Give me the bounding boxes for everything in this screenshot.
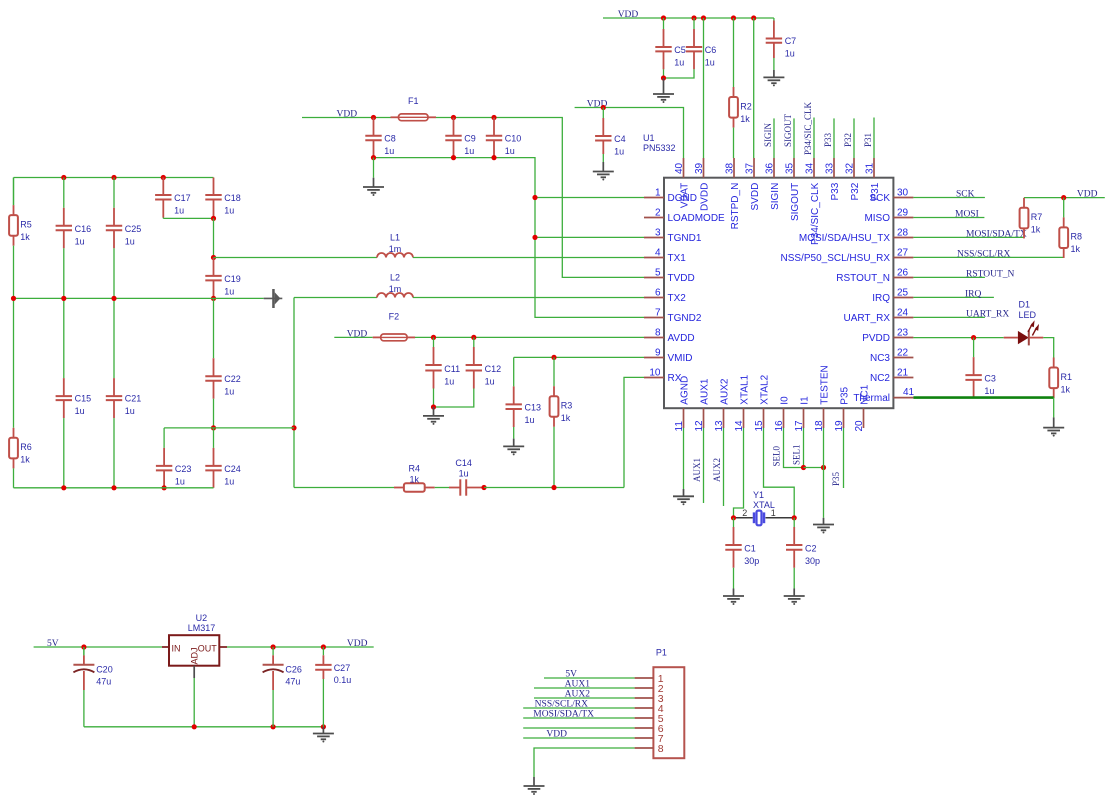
pin 25 IRQ stub — [893, 297, 913, 299]
svg-text:P31: P31 — [870, 182, 881, 200]
pin number 24 — [897, 308, 909, 319]
svg-text:NSS/SCL/RX: NSS/SCL/RX — [957, 249, 1010, 259]
pin name P34/SIC_CLK — [810, 182, 821, 245]
junction R8 top — [1061, 195, 1066, 200]
connector P1 pin 6 stub — [635, 727, 654, 729]
svg-text:30p: 30p — [744, 556, 759, 566]
connector P1 pin number 3 — [658, 693, 664, 705]
wire VDD to F1 — [302, 117, 391, 119]
net label AUX1 (P1) — [565, 680, 591, 690]
pin number 4 — [655, 248, 661, 259]
junction C10 top — [491, 115, 496, 120]
junction C16/C15 node — [61, 296, 66, 301]
capacitor C10 — [486, 118, 522, 158]
capacitor C13 — [506, 357, 542, 438]
pin number 21 — [897, 368, 909, 379]
wire L1 to pin4 TX1 — [413, 257, 644, 259]
svg-text:C19: C19 — [224, 274, 241, 284]
pin 34 P34/SIC_CLK stub — [813, 158, 815, 178]
svg-text:R4: R4 — [409, 464, 421, 474]
regulator U2 LM317 — [162, 635, 227, 678]
wire P1 pin 4 — [523, 707, 634, 709]
svg-text:1u: 1u — [175, 476, 185, 486]
svg-text:C22: C22 — [224, 374, 241, 384]
pin name P32 — [850, 182, 861, 200]
pin 26 RSTOUT_N stub — [893, 277, 913, 279]
svg-text:C18: C18 — [224, 193, 241, 203]
junction C25/C21 node — [111, 296, 116, 301]
junction C9 top — [451, 115, 456, 120]
svg-text:P32: P32 — [850, 182, 861, 200]
junction C15 bottom — [61, 485, 66, 490]
pin name SIGOUT — [790, 183, 801, 221]
svg-text:VBAT: VBAT — [680, 183, 691, 208]
net label SEL1 — [792, 444, 802, 465]
wire TX2 to L2 — [294, 297, 377, 299]
pin number 15 — [754, 420, 765, 432]
wire P1 pin 1 — [544, 677, 635, 679]
svg-text:39: 39 — [694, 162, 705, 174]
pin 39 DVDD stub — [703, 158, 705, 178]
svg-text:AUX1: AUX1 — [700, 378, 711, 405]
svg-text:1u: 1u — [444, 377, 454, 387]
wire NSS/SCL/RX — [913, 256, 1063, 258]
ground below C7 — [763, 58, 784, 86]
pin 14 XTAL1 stub — [743, 408, 745, 428]
svg-text:1k: 1k — [1031, 225, 1041, 235]
svg-text:0.1u: 0.1u — [334, 675, 352, 685]
pin name TGND1 — [668, 233, 702, 244]
pin name MOSI/SDA/HSU_TX — [799, 233, 890, 244]
junction SEL1 node — [801, 465, 806, 470]
svg-text:AUX1: AUX1 — [692, 458, 702, 482]
pin 23 PVDD stub — [893, 337, 913, 339]
pin 35 SIGOUT stub — [793, 158, 795, 178]
svg-text:RSTOUT_N: RSTOUT_N — [966, 269, 1015, 279]
svg-text:PVDD: PVDD — [862, 333, 890, 344]
connector P1 pin number 2 — [658, 683, 664, 695]
svg-text:1k: 1k — [1061, 384, 1071, 394]
wire C6 bottom to C5 bottom — [664, 69, 695, 78]
net label 5V (P1) — [565, 670, 577, 680]
svg-text:20: 20 — [854, 420, 865, 432]
wire to pin3 TGND1 — [535, 236, 644, 238]
junction TX2 branch / C22 row — [291, 425, 296, 430]
pin name UART_RX — [844, 313, 891, 324]
wire net AUX1 — [703, 428, 705, 503]
wire OUT to VDD — [227, 646, 374, 648]
wire VDD top rail — [603, 17, 774, 19]
pin number 16 — [774, 420, 785, 432]
junction TESTEN node — [821, 465, 826, 470]
svg-text:8: 8 — [655, 328, 661, 339]
svg-text:7: 7 — [655, 308, 661, 319]
pin number 14 — [734, 420, 745, 432]
svg-text:C4: C4 — [614, 134, 626, 144]
svg-text:MOSI: MOSI — [955, 210, 979, 220]
junction TGND1 branch — [532, 235, 537, 240]
svg-text:2: 2 — [742, 508, 747, 518]
svg-text:P34/SIC_CLK: P34/SIC_CLK — [810, 182, 821, 245]
svg-text:D1: D1 — [1019, 300, 1031, 310]
junction ADJ bottom — [192, 724, 197, 729]
svg-text:UART_RX: UART_RX — [844, 313, 891, 324]
svg-text:37: 37 — [745, 162, 756, 174]
capacitor C14 — [435, 458, 483, 496]
pin name RSTPD_N — [730, 183, 741, 230]
pin 13 AUX2 stub — [723, 408, 725, 428]
svg-text:21: 21 — [897, 368, 909, 379]
svg-text:34: 34 — [805, 162, 816, 174]
junction C4 top — [601, 105, 606, 110]
capacitor C27 — [315, 647, 351, 727]
net label VDD (rail 2) — [587, 100, 608, 110]
connector P1 body — [653, 667, 684, 758]
svg-text:NC3: NC3 — [870, 353, 890, 364]
svg-text:P1: P1 — [656, 648, 667, 658]
pin number 23 — [897, 328, 909, 339]
junction C22 bottom — [211, 425, 216, 430]
wire P1 pin 2 — [534, 687, 635, 689]
wire pin16 I0 (SEL0) — [784, 428, 804, 468]
pin 38 RSTPD_N stub — [733, 158, 735, 178]
pin name P35 — [840, 386, 851, 404]
pin 8 AVDD stub — [644, 337, 664, 339]
svg-text:1u: 1u — [984, 386, 994, 396]
svg-text:P31: P31 — [863, 133, 873, 147]
resistor R1 — [1049, 358, 1072, 399]
wire pin17 I1 (SEL1) — [803, 428, 805, 468]
svg-text:F1: F1 — [408, 96, 419, 106]
pin name DVDD — [700, 183, 711, 211]
pin 17 I1 stub — [803, 408, 805, 428]
capacitor C8 — [365, 118, 396, 158]
svg-text:C17: C17 — [174, 193, 191, 203]
svg-text:MISO: MISO — [864, 213, 890, 224]
svg-text:3: 3 — [655, 228, 661, 239]
pin number 8 — [655, 328, 661, 339]
svg-text:SIGOUT: SIGOUT — [783, 113, 793, 147]
junction C26 bottom — [271, 724, 276, 729]
svg-text:I1: I1 — [800, 396, 811, 405]
capacitor C16 — [56, 178, 92, 299]
junction C16 top — [61, 175, 66, 180]
junction R3 top — [551, 355, 556, 360]
svg-text:5: 5 — [655, 268, 661, 279]
net label AUX1 — [692, 458, 702, 482]
pin 10 RX stub — [644, 377, 664, 379]
pin 11 AGND stub — [683, 408, 685, 428]
pin number 41 — [903, 387, 915, 398]
svg-text:OUT: OUT — [198, 644, 218, 654]
wire Thermal net (thick) — [913, 396, 1053, 399]
capacitor C24 — [205, 428, 241, 488]
svg-text:1u: 1u — [224, 206, 234, 216]
pin name XTAL1 — [740, 374, 751, 404]
svg-text:XTAL1: XTAL1 — [740, 374, 751, 404]
pin number 13 — [714, 420, 725, 432]
svg-text:SIGOUT: SIGOUT — [790, 183, 801, 221]
pin number 11 — [674, 421, 685, 432]
pin 16 I0 stub — [783, 408, 785, 428]
junction C20 top — [81, 644, 86, 649]
capacitor C9 — [445, 118, 476, 158]
pin name P31 — [870, 182, 881, 200]
svg-text:SCK: SCK — [956, 190, 975, 200]
ground below LM317 rail — [313, 727, 334, 743]
wire C14 to RX corner — [484, 487, 624, 489]
net label P32 — [843, 133, 853, 147]
pin name AUX1 — [700, 378, 711, 405]
ground below C1 — [723, 589, 744, 606]
svg-text:47u: 47u — [285, 677, 300, 687]
svg-text:1u: 1u — [224, 286, 234, 296]
junction XTAL pin2 node — [731, 515, 736, 520]
svg-text:Thermal: Thermal — [853, 393, 890, 404]
ground below C5/C6 — [653, 78, 674, 103]
svg-text:9: 9 — [655, 348, 661, 359]
svg-text:TGND2: TGND2 — [668, 313, 702, 324]
svg-text:P32: P32 — [843, 133, 853, 147]
svg-text:1u: 1u — [125, 236, 135, 246]
pin name VMID — [668, 353, 693, 364]
svg-text:C1: C1 — [744, 543, 756, 553]
fuse F2 — [373, 312, 415, 341]
wire antenna mid rail — [14, 297, 264, 299]
wire antenna top rail — [14, 177, 214, 179]
connector P1 pin 3 stub — [635, 697, 654, 699]
net label VDD (top rail) — [618, 10, 639, 20]
connector P1 pin number 1 — [658, 673, 664, 685]
wire C22 row — [164, 427, 294, 429]
svg-text:P34/SIC_CLK: P34/SIC_CLK — [803, 101, 813, 155]
pin number 18 — [814, 420, 825, 432]
svg-text:31: 31 — [865, 162, 876, 174]
wire C12 bottom to ground node — [434, 398, 474, 407]
pin 4 TX1 stub — [644, 257, 664, 259]
svg-text:TGND1: TGND1 — [668, 233, 702, 244]
inductor L2 — [377, 273, 413, 298]
svg-text:PN5332: PN5332 — [643, 143, 676, 153]
svg-text:25: 25 — [897, 288, 909, 299]
pin 40 VBAT stub — [683, 158, 685, 178]
pin number 33 — [825, 162, 836, 174]
wire ADJ down — [193, 678, 195, 727]
net label SIGOUT — [783, 113, 793, 147]
capacitor C6 — [686, 18, 717, 69]
wire C20 top segment — [83, 647, 85, 655]
net label VDD (F1 rail) — [337, 110, 358, 120]
pin number 38 — [725, 162, 736, 174]
wire pin9 VMID — [514, 356, 644, 358]
wire LED to R1 — [1043, 338, 1053, 358]
svg-text:C7: C7 — [785, 36, 797, 46]
capacitor C3 — [965, 338, 996, 398]
wire PVDD to LED — [913, 337, 1003, 339]
wire VDD to F2 — [334, 336, 372, 338]
pin number 22 — [897, 348, 909, 359]
svg-text:10: 10 — [649, 368, 661, 379]
pin number 3 — [655, 228, 661, 239]
svg-text:C8: C8 — [384, 134, 396, 144]
net label VDD (P1) — [546, 730, 567, 740]
net label VDD (F2 rail) — [347, 329, 368, 339]
ground below C13 — [503, 439, 524, 456]
wire F1 to TVDD corner — [436, 118, 644, 278]
pin 31 P31 stub — [873, 158, 875, 178]
svg-text:C13: C13 — [525, 403, 542, 413]
pin 30 SCK stub — [893, 197, 913, 199]
pin number 35 — [785, 162, 796, 174]
svg-text:MOSI/SDA/TX: MOSI/SDA/TX — [533, 710, 594, 720]
net label VDD (pullups) — [1077, 190, 1098, 200]
connector P1 pin number 6 — [658, 723, 664, 735]
connector P1 pin 1 stub — [635, 677, 654, 679]
svg-text:R8: R8 — [1071, 232, 1083, 242]
capacitor C26 (polarized 47u) — [263, 647, 302, 727]
svg-text:TX1: TX1 — [668, 253, 687, 264]
svg-text:ADJ: ADJ — [190, 647, 200, 664]
connector P1 pin 4 stub — [635, 707, 654, 709]
svg-text:LED: LED — [1019, 310, 1037, 320]
pin number 26 — [897, 268, 909, 279]
capacitor C25 — [106, 178, 142, 299]
pin number 10 — [649, 368, 661, 379]
svg-text:MOSI/SDA/TX: MOSI/SDA/TX — [966, 229, 1027, 239]
pin 22 NC3 stub — [893, 357, 913, 359]
svg-text:C6: C6 — [705, 45, 717, 55]
pin name TX2 — [668, 293, 687, 304]
designator P1 — [656, 648, 667, 658]
svg-text:SEL1: SEL1 — [792, 444, 802, 465]
ground below pin18 — [813, 518, 834, 534]
net label SIGIN — [763, 123, 773, 147]
junction C11 top — [431, 335, 436, 340]
pin number 30 — [897, 188, 909, 199]
wire P1 pin 7 — [523, 737, 634, 739]
wire VDD rail 2 to pin40 VBAT — [575, 108, 684, 159]
svg-text:C23: C23 — [175, 464, 192, 474]
svg-text:TVDD: TVDD — [668, 273, 695, 284]
svg-text:L2: L2 — [390, 273, 400, 283]
antenna connector arrow — [264, 289, 283, 308]
svg-text:VDD: VDD — [546, 730, 567, 740]
junction C26 top — [271, 644, 276, 649]
svg-text:P35: P35 — [831, 471, 841, 486]
wire net P34/SIC_CLK (top pin) — [813, 118, 815, 159]
svg-text:IRQ: IRQ — [965, 289, 982, 299]
capacitor C12 — [466, 337, 502, 398]
pin name RSTOUT_N — [836, 273, 890, 284]
wire MOSI/SDA/TX — [913, 236, 1024, 238]
svg-text:DVDD: DVDD — [700, 183, 711, 211]
ground below C2 — [784, 589, 805, 606]
svg-text:AUX2: AUX2 — [712, 458, 722, 482]
svg-text:U1: U1 — [643, 133, 655, 143]
pin name P33 — [830, 182, 841, 200]
junction C10 bottom — [491, 155, 496, 160]
svg-text:1u: 1u — [485, 377, 495, 387]
net label NSS/SCL/RX — [957, 249, 1010, 259]
pin name TGND2 — [668, 313, 702, 324]
pin 28 MOSI/SDA/HSU_TX stub — [893, 237, 913, 239]
svg-text:1u: 1u — [459, 468, 469, 478]
wire pin18 TESTEN to ground — [823, 428, 825, 518]
wire MISO/MOSI net — [913, 217, 984, 219]
svg-text:1u: 1u — [785, 49, 795, 59]
wire RSTOUT_N — [913, 276, 985, 278]
capacitor C7 — [766, 18, 797, 59]
svg-text:1k: 1k — [20, 455, 30, 465]
svg-text:5V: 5V — [565, 670, 577, 680]
svg-text:1k: 1k — [1071, 244, 1081, 254]
wire F2 to pin8 AVDD — [415, 336, 644, 338]
pin name I1 — [800, 396, 811, 405]
pin 27 NSS/P50_SCL/HSU_RX stub — [893, 257, 913, 259]
pin name SIGIN — [770, 183, 781, 210]
svg-text:8: 8 — [658, 743, 664, 755]
pin name MISO — [864, 213, 890, 224]
capacitor C20 (polarized 47u) — [73, 647, 112, 727]
junction after C14 — [481, 485, 486, 490]
wire VDD to pin37 SVDD — [753, 18, 755, 158]
wire P1 pin 8 to ground — [534, 748, 635, 777]
svg-text:30p: 30p — [805, 556, 820, 566]
pin 18 TESTEN stub — [823, 408, 825, 428]
svg-text:1u: 1u — [224, 387, 234, 397]
junction C9 bottom — [451, 155, 456, 160]
designator U1 PN5332 — [643, 133, 676, 153]
wire net SIGOUT (top pin) — [793, 118, 795, 158]
svg-text:C16: C16 — [75, 224, 92, 234]
svg-text:NSS/P50_SCL/HSU_RX: NSS/P50_SCL/HSU_RX — [781, 253, 891, 264]
svg-text:32: 32 — [845, 162, 856, 174]
pin name DGND — [668, 193, 697, 204]
svg-text:C27: C27 — [334, 663, 351, 673]
svg-text:1u: 1u — [705, 57, 715, 67]
svg-text:U2: U2 — [196, 613, 208, 623]
svg-text:C15: C15 — [75, 394, 92, 404]
capacitor C4 — [595, 108, 626, 157]
svg-text:IN: IN — [172, 644, 181, 654]
svg-text:SIGIN: SIGIN — [770, 183, 781, 210]
svg-text:35: 35 — [785, 162, 796, 174]
pin 6 TX2 stub — [644, 297, 664, 299]
connector P1 pin 2 stub — [635, 687, 654, 689]
pin name XTAL2 — [760, 374, 771, 404]
pin number 27 — [897, 248, 909, 259]
junction C27 bottom / ground — [321, 724, 326, 729]
pin 21 NC2 stub — [893, 377, 913, 379]
wire UART_RX — [913, 316, 985, 318]
pin name TESTEN — [820, 365, 831, 404]
capacitor C21 — [106, 298, 142, 487]
svg-text:33: 33 — [825, 162, 836, 174]
net label RSTOUT_N — [966, 269, 1015, 279]
wire VDD pullup rail — [1024, 197, 1105, 199]
capacitor C15 — [56, 298, 92, 487]
svg-text:R2: R2 — [740, 101, 752, 111]
junction C17 top — [161, 175, 166, 180]
svg-text:38: 38 — [725, 162, 736, 174]
pin name AGND — [680, 376, 691, 405]
svg-text:C5: C5 — [674, 45, 686, 55]
junction C5/C6 bottom — [661, 75, 666, 80]
svg-text:29: 29 — [897, 208, 909, 219]
svg-text:1k: 1k — [740, 114, 750, 124]
wire net P31 (top pin) — [873, 118, 875, 159]
svg-text:1u: 1u — [384, 146, 394, 156]
